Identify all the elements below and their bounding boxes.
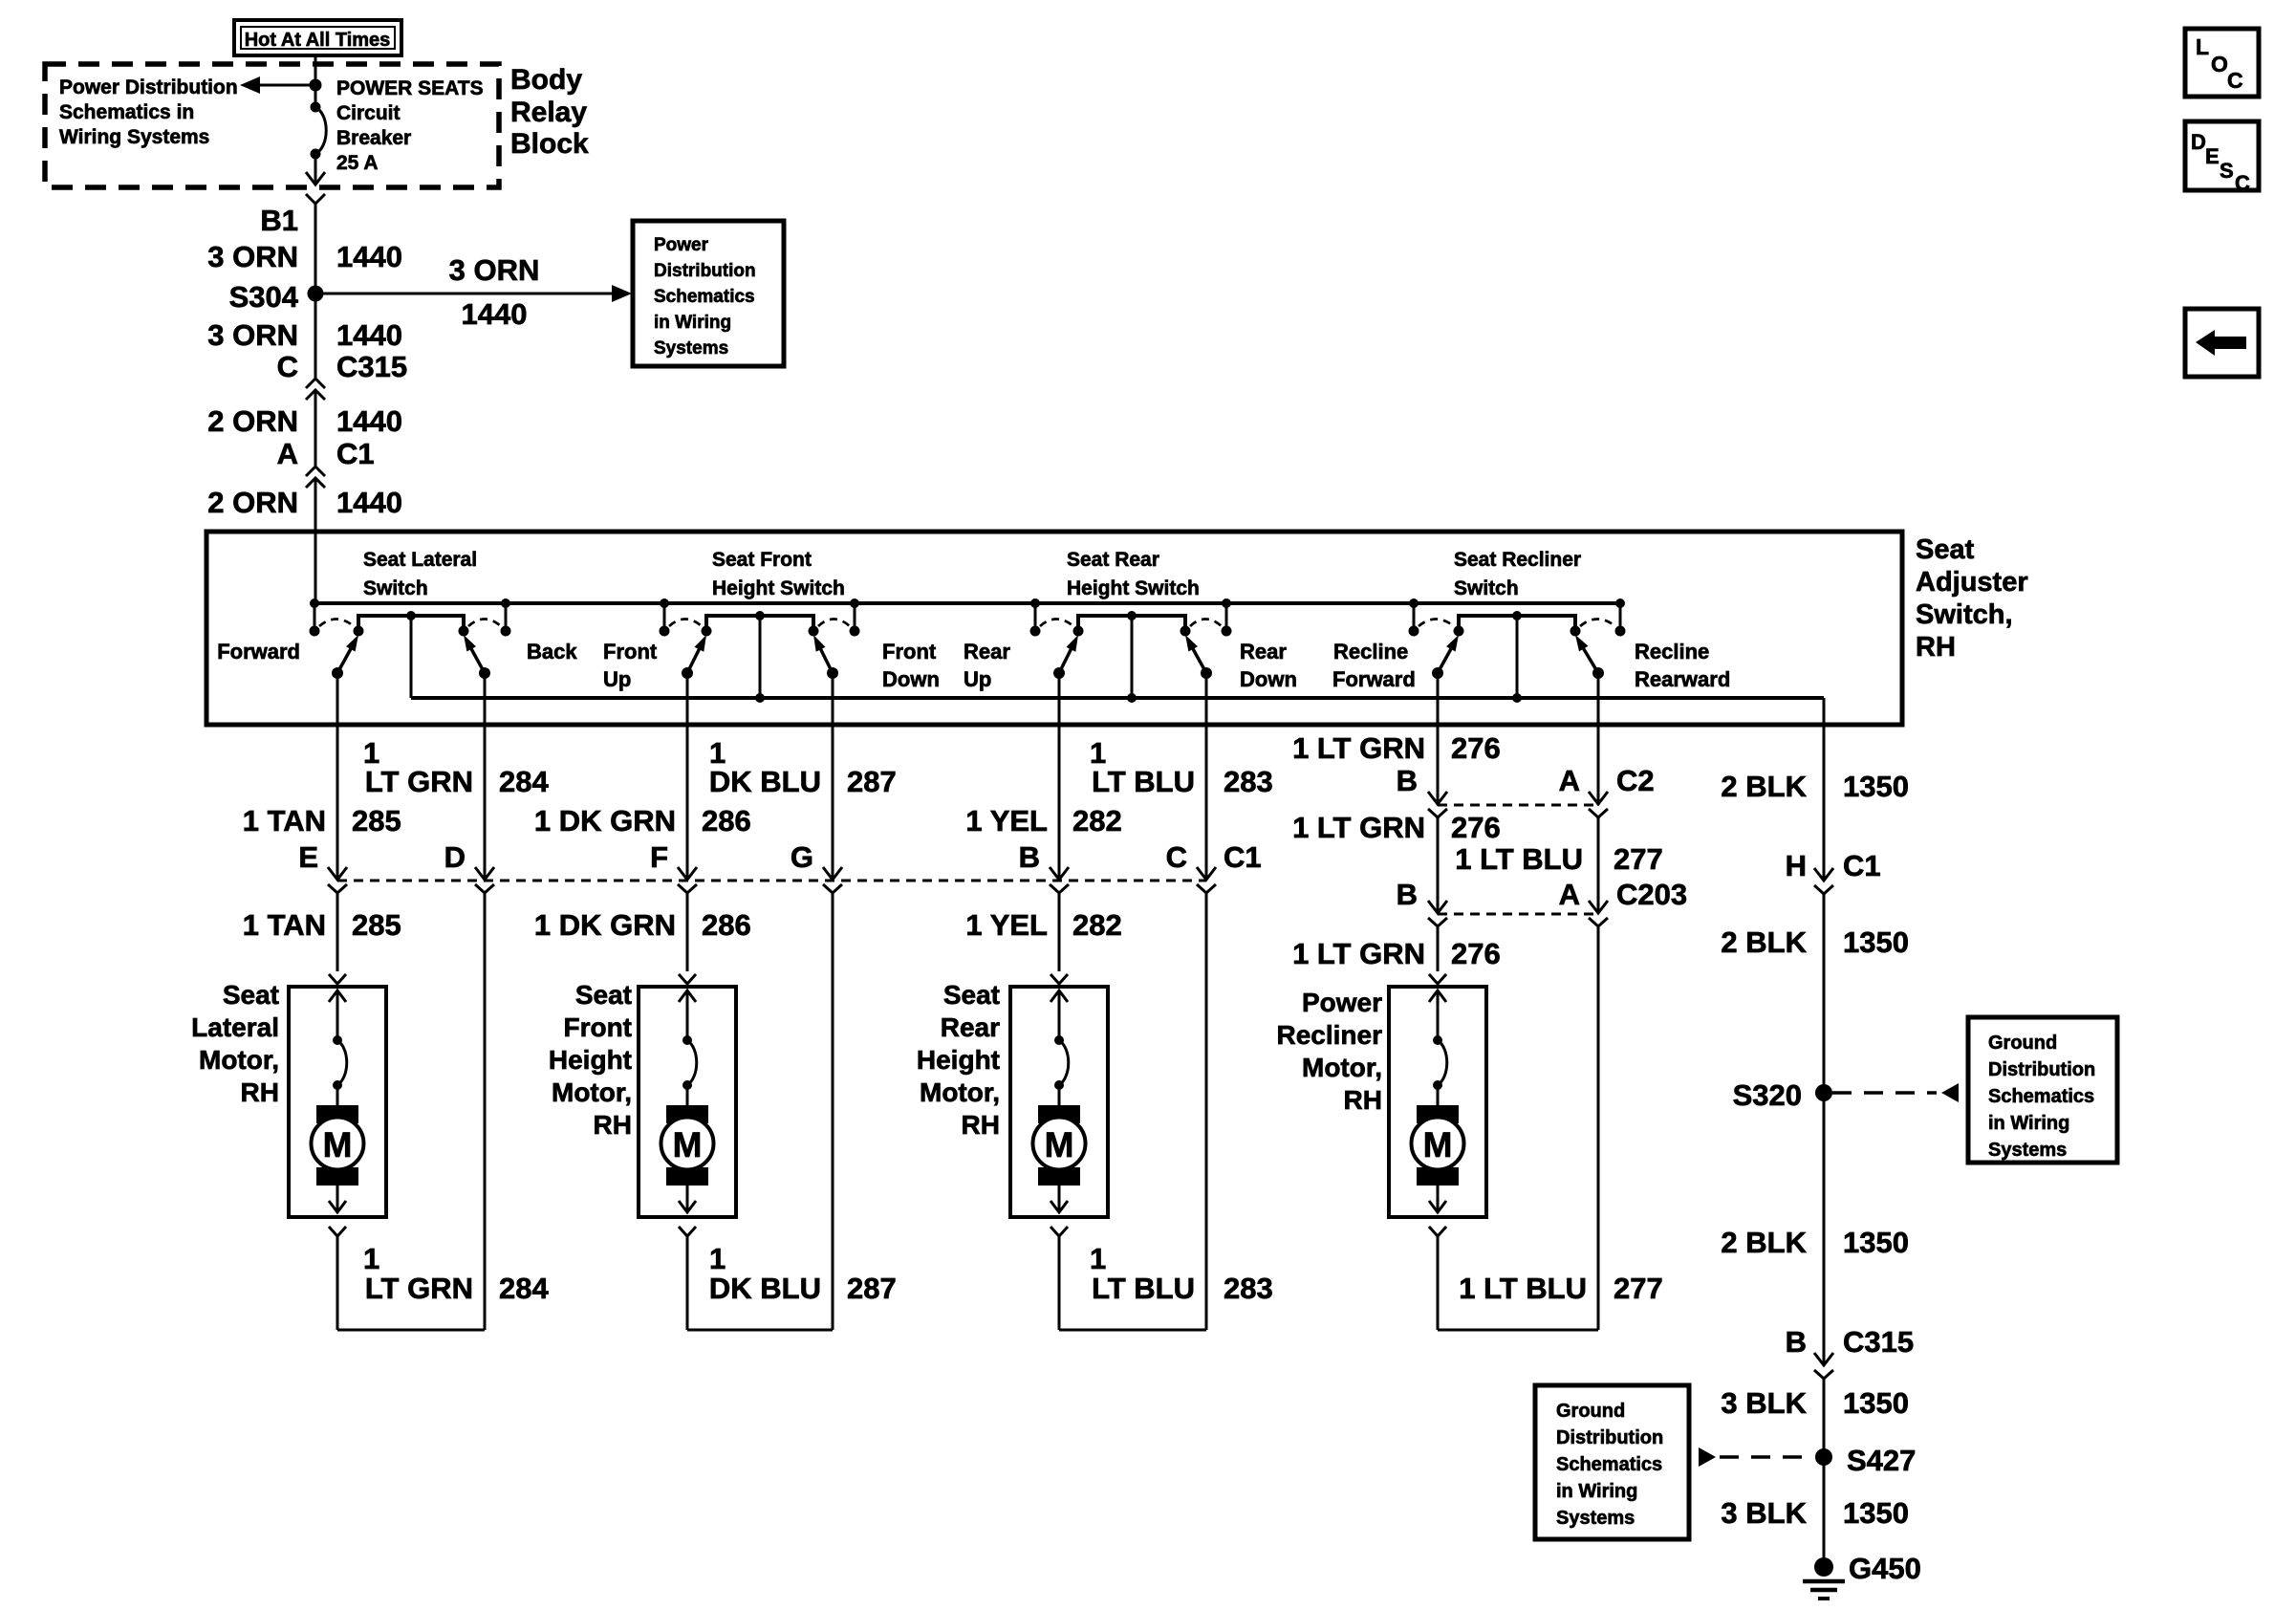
- svg-text:1350: 1350: [1843, 770, 1909, 803]
- power recliner motor M4 inlet socket: [1429, 974, 1446, 984]
- svg-text:E: E: [298, 840, 318, 874]
- svg-text:Switch: Switch: [1454, 577, 1519, 599]
- svg-text:Front: Front: [563, 1012, 632, 1042]
- power recliner motor M4 thermal protector: [1433, 1035, 1442, 1045]
- svg-text:25 A: 25 A: [336, 152, 379, 174]
- seat front height motor M2 internal outlet arrow: [686, 1186, 689, 1210]
- arrow to power distribution (left): [240, 76, 260, 94]
- svg-text:Ground: Ground: [1988, 1033, 2057, 1054]
- svg-text:Forward: Forward: [1332, 667, 1416, 691]
- svg-text:Down: Down: [1240, 667, 1297, 691]
- svg-text:1350: 1350: [1843, 1386, 1909, 1420]
- svg-text:1 YEL: 1 YEL: [965, 804, 1048, 838]
- nav box DESC: [2185, 121, 2259, 190]
- svg-text:LT BLU: LT BLU: [1092, 765, 1195, 798]
- svg-text:3 BLK: 3 BLK: [1721, 1496, 1807, 1530]
- wire to power distribution arrow: [258, 84, 315, 87]
- svg-text:286: 286: [702, 908, 751, 942]
- svg-text:1440: 1440: [336, 486, 402, 519]
- wire 3 ORN 1440 (B1 to S304): [314, 204, 317, 294]
- svg-text:S304: S304: [229, 280, 299, 314]
- svg-text:282: 282: [1072, 908, 1122, 942]
- svg-text:3 ORN: 3 ORN: [207, 318, 298, 352]
- seat rear height switch wiper left: [1053, 667, 1065, 679]
- svg-text:L: L: [2196, 34, 2209, 59]
- svg-text:Seat Recliner: Seat Recliner: [1454, 549, 1581, 571]
- svg-text:C: C: [1166, 840, 1187, 874]
- seat lateral motor M1 thermal protector: [333, 1035, 342, 1045]
- seat front height motor M2 motor symbol: [686, 1085, 689, 1106]
- seat lateral switch wiper right: [479, 667, 490, 679]
- svg-text:Block: Block: [510, 128, 589, 160]
- svg-text:M: M: [1045, 1125, 1074, 1164]
- svg-text:LT GRN: LT GRN: [365, 1272, 473, 1305]
- svg-text:M: M: [673, 1125, 703, 1164]
- nav box LOC: [2185, 29, 2259, 97]
- wire F 1 DK GRN 286 (upper): [686, 725, 689, 880]
- seat adjuster switch outline: [206, 532, 1902, 725]
- svg-text:Systems: Systems: [1988, 1140, 2067, 1161]
- svg-text:1 TAN: 1 TAN: [243, 804, 326, 838]
- seat front height switch left output wire: [686, 673, 689, 725]
- svg-text:Rear: Rear: [1240, 640, 1287, 664]
- svg-text:B: B: [1397, 878, 1418, 911]
- connector C1 pass-through at x=353: [328, 867, 347, 880]
- svg-text:Seat Front: Seat Front: [712, 549, 812, 571]
- seat rear height motor M3 thermal protector: [1054, 1035, 1064, 1045]
- wire F 1 DK GRN 286 (lower): [686, 893, 689, 971]
- svg-text:G: G: [791, 840, 813, 874]
- svg-text:Recliner: Recliner: [1277, 1020, 1383, 1050]
- branch wire to power distribution box: [315, 293, 621, 295]
- svg-text:1440: 1440: [336, 240, 402, 273]
- svg-text:C315: C315: [336, 350, 407, 383]
- svg-text:B: B: [1397, 764, 1418, 797]
- seat lateral motor M1 motor symbol: [336, 1085, 339, 1106]
- svg-text:Height: Height: [549, 1045, 632, 1075]
- seat lateral switch contact bar: [358, 616, 464, 631]
- svg-text:C1: C1: [336, 437, 375, 470]
- seat lateral switch bus taps: [310, 598, 319, 608]
- svg-text:282: 282: [1072, 804, 1122, 838]
- svg-text:C1: C1: [1224, 840, 1262, 874]
- wire 3 BLK 1350 (S427 to G450): [1823, 1457, 1826, 1567]
- svg-text:Power: Power: [654, 235, 709, 255]
- seat rear height switch bus taps: [1030, 598, 1040, 608]
- wire A 1 LT BLU 277 (middle): [1597, 817, 1600, 913]
- svg-text:Motor,: Motor,: [1302, 1053, 1382, 1082]
- svg-text:O: O: [2211, 52, 2228, 76]
- svg-text:284: 284: [499, 1272, 549, 1305]
- dashed link to ground distribution: [1832, 1091, 1937, 1095]
- seat front height motor M2 thermal protector: [682, 1035, 692, 1045]
- svg-text:LT BLU: LT BLU: [1092, 1272, 1195, 1305]
- svg-text:Seat: Seat: [223, 980, 279, 1010]
- wire 2 ORN 1440 (C315 to C1): [314, 390, 317, 466]
- seat recliner switch wiper right: [1592, 667, 1604, 679]
- svg-text:287: 287: [847, 1272, 897, 1305]
- seat recliner switch bus taps: [1409, 598, 1419, 608]
- note box: Ground Distribution Schematics in Wiring Systems (right): [1968, 1017, 2117, 1163]
- seat recliner switch right output wire: [1597, 673, 1600, 725]
- svg-text:Height Switch: Height Switch: [712, 577, 845, 599]
- svg-text:1: 1: [363, 1242, 379, 1275]
- svg-text:Seat: Seat: [943, 980, 1000, 1010]
- svg-text:in Wiring: in Wiring: [654, 313, 731, 333]
- svg-text:1: 1: [709, 1242, 726, 1275]
- svg-text:Adjuster: Adjuster: [1916, 567, 2028, 598]
- connector C203 pass-through B: [1428, 901, 1447, 913]
- svg-text:Motor,: Motor,: [199, 1045, 279, 1075]
- svg-text:Rearward: Rearward: [1635, 667, 1730, 691]
- seat front height switch wiper left: [682, 667, 693, 679]
- svg-text:1 YEL: 1 YEL: [965, 908, 1048, 942]
- wire B 1 LT GRN 276 (middle): [1437, 817, 1440, 913]
- wire 3 ORN 1440 (S304 to C315): [314, 294, 317, 378]
- wire B 1 LT GRN 276 (lower): [1437, 926, 1440, 971]
- seat lateral switch wiper left: [332, 667, 343, 679]
- seat rear height motor M3 internal outlet arrow: [1058, 1186, 1061, 1210]
- svg-text:C2: C2: [1616, 764, 1655, 797]
- wire B 1 LT BLU 283 (upper): [1058, 725, 1061, 880]
- svg-text:A: A: [1559, 764, 1580, 797]
- connector C1 pass-through at x=1108: [1050, 867, 1069, 880]
- svg-text:Schematics: Schematics: [1988, 1086, 2094, 1107]
- svg-text:C: C: [2227, 68, 2243, 93]
- seat lateral motor M1 outline: [289, 987, 386, 1217]
- seat lateral switch right output wire: [484, 673, 487, 725]
- svg-text:3 BLK: 3 BLK: [1721, 1386, 1807, 1420]
- svg-text:Power Distribution: Power Distribution: [59, 76, 238, 98]
- svg-text:RH: RH: [1344, 1085, 1382, 1115]
- svg-text:3 ORN: 3 ORN: [207, 240, 298, 273]
- svg-text:1350: 1350: [1843, 925, 1909, 959]
- svg-text:E: E: [2205, 144, 2220, 168]
- seat rear height motor M3 motor symbol: [1058, 1085, 1061, 1106]
- svg-text:286: 286: [702, 804, 751, 838]
- connector C2 pass-through B: [1428, 792, 1447, 804]
- svg-text:Systems: Systems: [654, 338, 728, 359]
- arrow into power distribution box: [612, 285, 632, 302]
- seat rear height motor M3 inlet socket: [1051, 974, 1068, 984]
- svg-text:Recline: Recline: [1635, 640, 1709, 664]
- seat front height switch wiper right: [827, 667, 838, 679]
- nav box back arrow: [2185, 309, 2259, 377]
- seat front height switch common tap: [759, 616, 762, 698]
- svg-text:1 LT GRN: 1 LT GRN: [1292, 811, 1425, 844]
- junction to power distribution: [310, 79, 322, 92]
- power recliner motor M4 internal feed arrow (up): [1437, 990, 1440, 1039]
- svg-text:Height: Height: [917, 1045, 1000, 1075]
- connector C1 pass-through at x=719: [678, 867, 697, 880]
- svg-text:S427: S427: [1847, 1444, 1916, 1477]
- wire D 1 LT GRN 284 (upper): [484, 725, 487, 880]
- svg-text:Up: Up: [603, 667, 631, 691]
- svg-text:Circuit: Circuit: [336, 102, 401, 124]
- seat front height motor M2 return loop: [686, 1236, 689, 1330]
- svg-text:277: 277: [1614, 1272, 1663, 1305]
- connector C203 pass-through A: [1589, 901, 1608, 913]
- splice S320: [1815, 1084, 1832, 1101]
- svg-text:G450: G450: [1849, 1552, 1921, 1585]
- svg-text:Distribution: Distribution: [1556, 1427, 1663, 1448]
- svg-text:D: D: [444, 840, 466, 874]
- connector C203 dashed boundary: [1438, 913, 1598, 916]
- svg-text:1 DK GRN: 1 DK GRN: [534, 804, 676, 838]
- svg-text:Ground: Ground: [1556, 1401, 1625, 1422]
- wire B 1 YEL 282 (lower): [1058, 893, 1061, 971]
- seat rear height switch right output wire: [1205, 673, 1208, 725]
- seat lateral motor M1 internal outlet arrow: [336, 1186, 339, 1210]
- svg-text:Switch,: Switch,: [1916, 599, 2013, 630]
- power recliner motor M4 motor symbol: [1437, 1085, 1440, 1106]
- svg-text:284: 284: [499, 765, 549, 798]
- svg-text:Wiring Systems: Wiring Systems: [59, 126, 209, 148]
- connector B1 socket: [306, 194, 325, 204]
- svg-text:Height Switch: Height Switch: [1067, 577, 1200, 599]
- connector C1 pass-through at x=1262: [1197, 867, 1216, 880]
- svg-text:1440: 1440: [336, 318, 402, 352]
- seat lateral switch common tap: [410, 616, 413, 698]
- svg-text:283: 283: [1224, 765, 1273, 798]
- wire from Hot At All Times into relay block: [314, 55, 317, 85]
- svg-text:1 LT BLU: 1 LT BLU: [1455, 842, 1583, 876]
- wire breaker to block edge with arrow: [314, 154, 317, 184]
- svg-text:276: 276: [1451, 731, 1501, 765]
- svg-text:Up: Up: [964, 667, 991, 691]
- svg-text:F: F: [650, 840, 668, 874]
- svg-text:S320: S320: [1733, 1078, 1802, 1112]
- svg-text:Motor,: Motor,: [920, 1077, 1000, 1107]
- seat rear height switch wiper right: [1201, 667, 1212, 679]
- svg-text:Lateral: Lateral: [191, 1012, 279, 1042]
- svg-text:Seat Lateral: Seat Lateral: [363, 549, 477, 571]
- note box: Power Distribution Schematics in Wiring Systems: [633, 221, 784, 366]
- svg-text:D: D: [2191, 130, 2206, 154]
- svg-text:2 ORN: 2 ORN: [207, 486, 298, 519]
- seat lateral motor M1 internal feed arrow (up): [336, 990, 339, 1039]
- svg-text:Seat: Seat: [575, 980, 632, 1010]
- svg-text:276: 276: [1451, 937, 1501, 970]
- seat rear height switch common tap: [1131, 616, 1134, 698]
- connector C2 dashed boundary: [1438, 804, 1598, 807]
- svg-text:POWER SEATS: POWER SEATS: [336, 77, 484, 99]
- svg-text:Power: Power: [1302, 988, 1382, 1017]
- body relay block dashed outline: [45, 64, 499, 187]
- svg-text:1 LT BLU: 1 LT BLU: [1459, 1272, 1587, 1305]
- svg-text:B: B: [1019, 840, 1040, 874]
- svg-text:2 BLK: 2 BLK: [1721, 770, 1807, 803]
- circuit breaker CB 25 A: [311, 102, 321, 113]
- switch feed bus: [314, 601, 1620, 605]
- seat rear height motor M3 outlet socket: [1051, 1227, 1068, 1236]
- seat rear height motor M3 outline: [1010, 987, 1108, 1217]
- wire 2 BLK 1350 (C1 to S320): [1823, 894, 1826, 1093]
- wire E 1 TAN 285 (upper): [336, 725, 339, 880]
- wire E 1 TAN 285 (lower): [336, 893, 339, 971]
- wire 3 BLK 1350 (C315 to S427): [1823, 1379, 1826, 1457]
- svg-text:Breaker: Breaker: [336, 127, 411, 149]
- svg-text:Back: Back: [527, 640, 577, 664]
- seat recliner switch wiper left: [1432, 667, 1443, 679]
- dashed link to ground distribution (left): [1699, 1447, 1716, 1467]
- svg-text:Hot At All Times: Hot At All Times: [245, 30, 391, 51]
- svg-text:1 LT GRN: 1 LT GRN: [1292, 937, 1425, 970]
- svg-text:285: 285: [352, 908, 401, 942]
- svg-text:2 BLK: 2 BLK: [1721, 1226, 1807, 1259]
- svg-text:Schematics: Schematics: [654, 287, 755, 307]
- svg-text:2 ORN: 2 ORN: [207, 404, 298, 438]
- svg-text:Switch: Switch: [363, 577, 428, 599]
- seat rear height switch contact bar: [1078, 616, 1185, 631]
- svg-text:Distribution: Distribution: [654, 261, 756, 281]
- svg-text:1 TAN: 1 TAN: [243, 908, 326, 942]
- seat lateral motor M1 return loop: [336, 1236, 339, 1330]
- svg-text:in Wiring: in Wiring: [1556, 1481, 1637, 1502]
- svg-text:Rear: Rear: [964, 640, 1010, 664]
- power recliner motor M4 return loop: [1437, 1236, 1440, 1330]
- svg-text:A: A: [277, 437, 298, 470]
- svg-text:1350: 1350: [1843, 1496, 1909, 1530]
- svg-text:285: 285: [352, 804, 401, 838]
- svg-text:Motor,: Motor,: [552, 1077, 632, 1107]
- svg-text:277: 277: [1614, 842, 1663, 876]
- svg-text:3 ORN: 3 ORN: [449, 253, 540, 287]
- svg-text:1440: 1440: [336, 404, 402, 438]
- seat lateral switch rocker coupling (dashed): [319, 620, 354, 627]
- svg-text:C: C: [277, 350, 298, 383]
- svg-text:M: M: [1423, 1125, 1453, 1164]
- svg-text:Down: Down: [882, 667, 940, 691]
- seat rear height switch rocker coupling (dashed): [1040, 620, 1073, 627]
- svg-text:H: H: [1786, 849, 1807, 882]
- svg-text:Forward: Forward: [217, 640, 300, 664]
- svg-text:1 DK GRN: 1 DK GRN: [534, 908, 676, 942]
- svg-text:RH: RH: [962, 1110, 1000, 1140]
- wire G 1 DK BLU 287 (upper): [832, 725, 834, 880]
- seat front height motor M2 outlet socket: [679, 1227, 696, 1236]
- splice S304: [308, 286, 324, 302]
- svg-text:C: C: [2235, 171, 2250, 195]
- svg-text:S: S: [2220, 159, 2234, 183]
- svg-text:287: 287: [847, 765, 897, 798]
- ground bus exit wire: [1823, 698, 1826, 880]
- svg-text:Seat Rear: Seat Rear: [1067, 549, 1159, 571]
- svg-text:Recline: Recline: [1333, 640, 1408, 664]
- seat recliner switch common tap: [1516, 616, 1519, 698]
- seat rear height motor M3 internal feed arrow (up): [1058, 990, 1061, 1039]
- svg-text:RH: RH: [594, 1110, 632, 1140]
- svg-text:C203: C203: [1616, 878, 1687, 911]
- wire 2 BLK 1350 (S320 to C315): [1823, 1093, 1826, 1365]
- ground G450: [1814, 1557, 1833, 1577]
- seat recliner switch left output wire: [1437, 673, 1440, 725]
- wire A (upper): [1597, 725, 1600, 804]
- seat lateral switch left output wire: [336, 673, 339, 725]
- svg-text:in Wiring: in Wiring: [1988, 1113, 2069, 1134]
- svg-text:B: B: [1786, 1325, 1807, 1359]
- svg-text:1: 1: [1090, 1242, 1106, 1275]
- svg-text:Relay: Relay: [510, 97, 587, 128]
- svg-text:RH: RH: [1916, 632, 1956, 663]
- svg-text:C1: C1: [1843, 849, 1881, 882]
- seat recliner switch rocker coupling (dashed): [1419, 620, 1454, 627]
- seat lateral motor M1 inlet socket: [329, 974, 346, 984]
- svg-text:1350: 1350: [1843, 1226, 1909, 1259]
- seat front height motor M2 outline: [639, 987, 736, 1217]
- label box: Hot At All Times: [234, 20, 401, 55]
- svg-text:Systems: Systems: [1556, 1508, 1635, 1529]
- svg-text:1 LT GRN: 1 LT GRN: [1292, 731, 1425, 765]
- svg-text:Front: Front: [603, 640, 658, 664]
- seat recliner switch contact bar: [1459, 616, 1575, 631]
- connector C1 dashed boundary: [337, 880, 1206, 882]
- seat front height switch rocker coupling (dashed): [669, 620, 702, 627]
- svg-text:2 BLK: 2 BLK: [1721, 925, 1807, 959]
- svg-text:LT GRN: LT GRN: [365, 765, 473, 798]
- seat front height switch contact bar: [706, 616, 813, 631]
- connector C1 pass-through at x=507: [475, 867, 494, 880]
- svg-text:276: 276: [1451, 811, 1501, 844]
- svg-text:DK BLU: DK BLU: [709, 765, 821, 798]
- splice S427: [1815, 1448, 1832, 1466]
- svg-text:RH: RH: [241, 1077, 279, 1107]
- seat front height switch right output wire: [832, 673, 834, 725]
- svg-text:B1: B1: [260, 204, 298, 237]
- seat front height motor M2 inlet socket: [679, 974, 696, 984]
- wire C 1 YEL 282 (upper): [1205, 725, 1208, 880]
- wire B 1 LT GRN 276 (upper): [1437, 725, 1440, 804]
- switch common bus: [411, 696, 1824, 700]
- power recliner motor M4 internal outlet arrow: [1437, 1186, 1440, 1210]
- wire 2 ORN 1440 (C1 to switch): [314, 478, 317, 603]
- seat front height motor M2 internal feed arrow (up): [686, 990, 689, 1039]
- svg-text:C315: C315: [1843, 1325, 1914, 1359]
- seat lateral motor M1 outlet socket: [329, 1227, 346, 1236]
- svg-text:Front: Front: [882, 640, 937, 664]
- connector C2 pass-through A: [1589, 792, 1608, 804]
- svg-text:283: 283: [1224, 1272, 1273, 1305]
- connector C1 pass-through at x=871: [823, 867, 842, 880]
- svg-text:Schematics in: Schematics in: [59, 101, 194, 123]
- power recliner motor M4 outlet socket: [1429, 1227, 1446, 1236]
- svg-text:Distribution: Distribution: [1988, 1059, 2095, 1080]
- seat front height switch bus taps: [660, 598, 669, 608]
- svg-text:Body: Body: [510, 64, 582, 96]
- power recliner motor M4 outline: [1389, 987, 1486, 1217]
- svg-text:M: M: [323, 1125, 353, 1164]
- svg-text:A: A: [1559, 878, 1580, 911]
- svg-text:Schematics: Schematics: [1556, 1454, 1662, 1475]
- seat rear height motor M3 return loop: [1058, 1236, 1061, 1330]
- svg-text:Seat: Seat: [1916, 534, 1975, 565]
- seat rear height switch left output wire: [1058, 673, 1061, 725]
- note box: Ground Distribution Schematics in Wiring Systems (left): [1535, 1385, 1689, 1539]
- svg-text:1440: 1440: [462, 297, 528, 331]
- svg-text:Rear: Rear: [941, 1012, 1000, 1042]
- svg-text:DK BLU: DK BLU: [709, 1272, 821, 1305]
